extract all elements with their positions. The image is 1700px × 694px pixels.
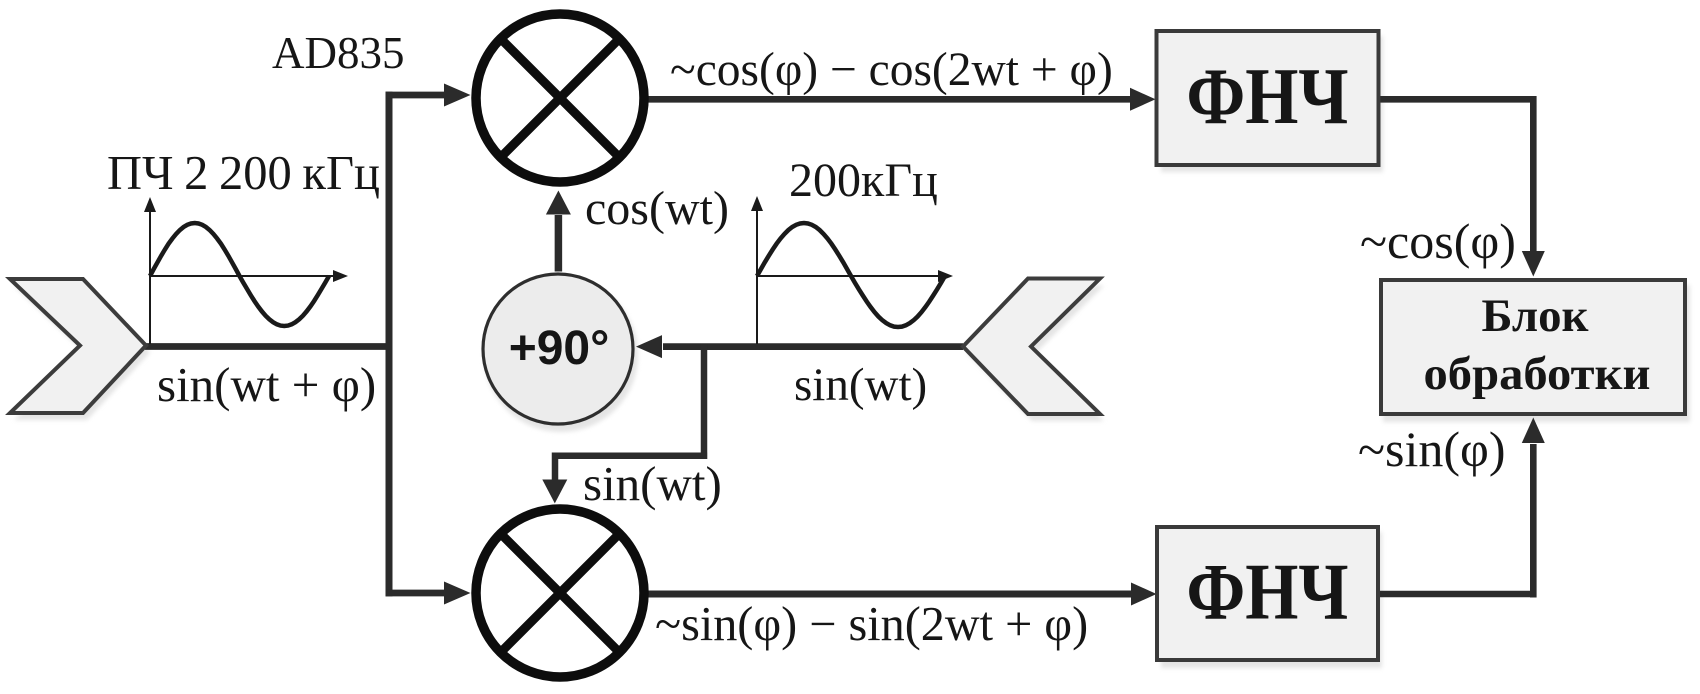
svg-text:~sin(φ): ~sin(φ) <box>1358 421 1506 477</box>
svg-text:~cos(φ): ~cos(φ) <box>1360 213 1516 269</box>
sine plot 2 axes <box>757 205 941 344</box>
box FNC1 (low pass filter top) <box>1157 31 1379 165</box>
sine wave 1 <box>150 223 329 326</box>
svg-text:sin(wt): sin(wt) <box>794 359 927 411</box>
wire to top mixer <box>386 92 446 99</box>
sine plot 1 axes <box>150 206 339 344</box>
svg-text:ФНЧ: ФНЧ <box>1187 53 1349 141</box>
svg-text:ФНЧ: ФНЧ <box>1187 549 1349 637</box>
wire to bottom mixer <box>386 590 446 597</box>
svg-text:sin(wt + φ): sin(wt + φ) <box>157 357 376 412</box>
mixer U2 (bottom multiplier) <box>476 509 644 677</box>
svg-text:200кГц: 200кГц <box>789 154 938 207</box>
wire +90 up to top mixer <box>555 215 563 272</box>
svg-text:~sin(φ) − sin(2wt + φ): ~sin(φ) − sin(2wt + φ) <box>655 598 1088 651</box>
wire input horizontal from left connector <box>145 343 392 350</box>
connector chevron input 1 (left) <box>10 279 146 413</box>
svg-text:обработки: обработки <box>1424 348 1651 400</box>
phase shifter +90 <box>483 274 633 424</box>
box FNC2 (low pass filter bottom) <box>1157 527 1378 660</box>
box processing unit <box>1381 280 1685 414</box>
wire vertical branch <box>386 92 393 597</box>
wire top mixer output to FNC1 <box>647 96 1132 103</box>
svg-text:AD835: AD835 <box>272 28 405 78</box>
svg-text:+90°: +90° <box>509 322 610 375</box>
svg-text:sin(wt): sin(wt) <box>583 456 722 511</box>
svg-text:~cos(φ) − cos(2wt + φ): ~cos(φ) − cos(2wt + φ) <box>670 44 1113 96</box>
svg-text:cos(wt): cos(wt) <box>585 182 729 235</box>
wire right connector to +90 <box>663 343 963 350</box>
svg-text:ПЧ 2 200 кГц: ПЧ 2 200 кГц <box>107 147 380 200</box>
wire FNC1 to processing block <box>1378 96 1533 252</box>
sine wave 2 <box>757 223 945 327</box>
mixer U1 (top multiplier) <box>476 14 644 182</box>
connector chevron input 2 (right) <box>963 279 1100 415</box>
wire junction down to bottom mixer <box>555 344 707 481</box>
wire FNC2 to processing block <box>1378 444 1533 598</box>
svg-text:Блок: Блок <box>1482 290 1590 342</box>
wire bottom mixer output to FNC2 <box>647 591 1133 598</box>
